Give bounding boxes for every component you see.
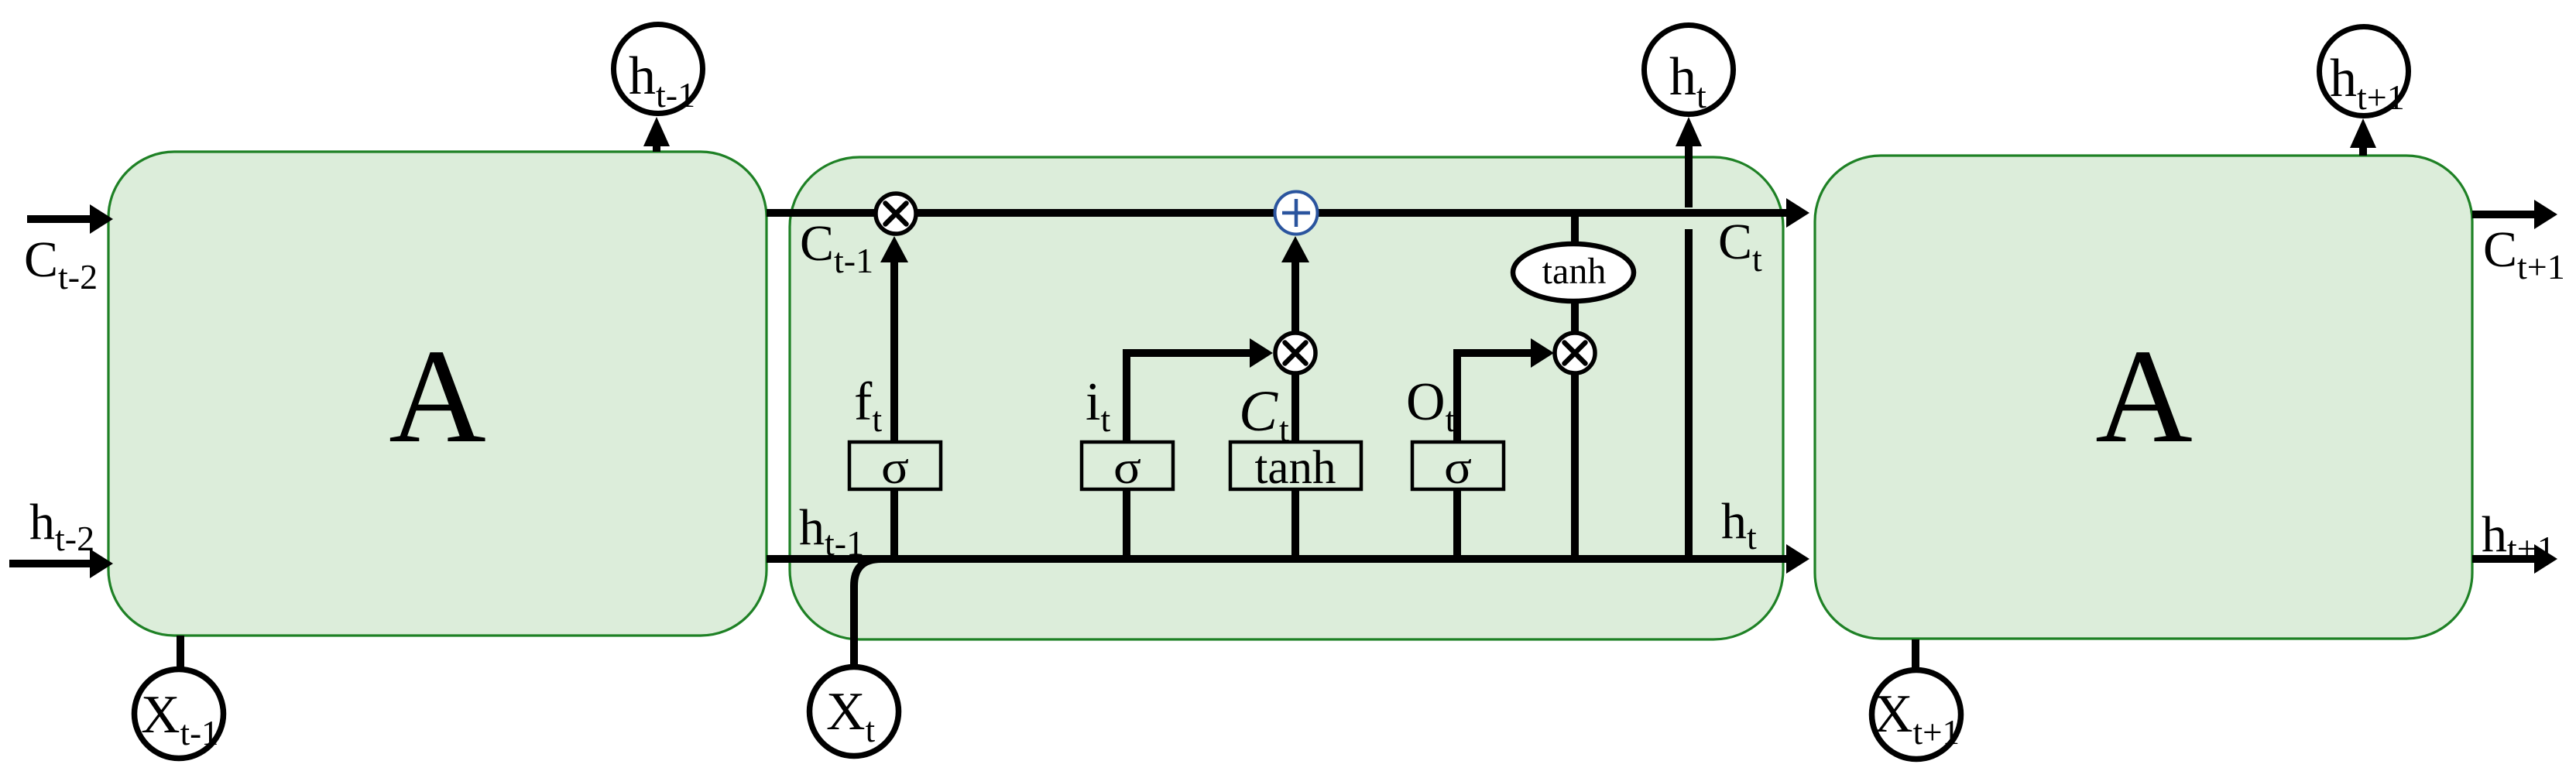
wire h_t+1 output arrow up bbox=[2350, 118, 2376, 156]
circle X_t bbox=[810, 667, 899, 756]
node add on C line (blue) bbox=[1275, 192, 1318, 235]
wire h_t-1 output arrow up bbox=[643, 117, 670, 152]
wire tanh branch: C line down to tanh ellipse bbox=[1571, 213, 1579, 245]
svg-text:σ: σ bbox=[1444, 442, 1472, 493]
wire h_t vertical up to circle (with jump gap at C line) bbox=[1676, 117, 1702, 559]
node mult (output) bbox=[1555, 333, 1595, 373]
svg-text:ht-2: ht-2 bbox=[29, 494, 94, 558]
wire mult node down to h line bbox=[1571, 373, 1579, 563]
node mult (input x candidate) bbox=[1275, 333, 1315, 373]
node mult (forget) on C line bbox=[876, 194, 916, 234]
circle h_t+1 bbox=[2320, 27, 2409, 118]
circle X_t-1 bbox=[135, 670, 224, 759]
circle X_t+1 bbox=[1872, 670, 1961, 759]
cell block A (t-1) bbox=[108, 152, 767, 636]
wire C_t+1 output arrow bbox=[2472, 200, 2557, 229]
svg-text:A: A bbox=[389, 321, 486, 471]
svg-text:Ct-2: Ct-2 bbox=[24, 231, 98, 296]
wire C_t-2 input arrow bbox=[27, 204, 113, 234]
wire forget gate vertical bbox=[880, 236, 908, 559]
svg-text:tanh: tanh bbox=[1254, 442, 1336, 494]
wire h_t+1 output arrow bbox=[2472, 544, 2557, 574]
svg-text:σ: σ bbox=[881, 442, 909, 493]
wire X_t elbow into h line bbox=[854, 559, 881, 669]
cell block A (t+1) bbox=[1815, 156, 2472, 639]
wire input gate vertical + elbow bbox=[1127, 338, 1273, 559]
svg-text:tanh: tanh bbox=[1542, 251, 1607, 292]
cell block LSTM (t) bbox=[790, 157, 1783, 639]
gate sigma box i bbox=[1082, 442, 1173, 493]
wire h line (hidden state) bbox=[767, 544, 1809, 574]
svg-text:σ: σ bbox=[1113, 442, 1141, 493]
tanh ellipse bbox=[1513, 244, 1634, 301]
wire C line (cell state) bbox=[767, 198, 1809, 228]
circle h_t-1 bbox=[614, 25, 703, 115]
wire tanh ellipse to mult node bbox=[1571, 301, 1579, 333]
circle h_t bbox=[1645, 26, 1734, 116]
wire candidate gate vertical bbox=[1281, 236, 1309, 559]
svg-text:C: C bbox=[1239, 379, 1278, 444]
svg-text:Ct+1: Ct+1 bbox=[2483, 221, 2565, 286]
svg-text:A: A bbox=[2095, 321, 2193, 471]
gate tanh box bbox=[1230, 442, 1361, 494]
wire h_t-2 input arrow bbox=[9, 549, 113, 578]
wire output gate vertical + elbow bbox=[1457, 338, 1554, 559]
wire X_t+1 stub bbox=[1912, 639, 1919, 669]
gate sigma box o bbox=[1412, 442, 1504, 493]
gate sigma box f bbox=[849, 442, 941, 493]
svg-text:ht+1: ht+1 bbox=[2482, 506, 2555, 568]
wire X_t-1 stub bbox=[177, 636, 184, 669]
